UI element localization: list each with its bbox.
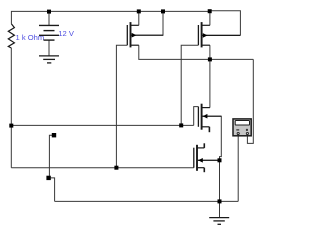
wire meter right lead xyxy=(247,59,253,143)
transistor M3 (NMOS middle-right) xyxy=(198,104,221,133)
wire M2-M3 vertical x=210 xyxy=(209,45,211,107)
M4 open drain stub xyxy=(203,143,205,148)
transistor M4 (NMOS bottom) xyxy=(194,143,220,172)
wire M2 gate vertical xyxy=(181,45,198,125)
node M1 bulk/rail xyxy=(161,9,165,13)
node M4 bulk xyxy=(218,158,222,162)
node M1 gate / bottom bus xyxy=(114,166,118,170)
wire bottom rail y=201.4 xyxy=(55,200,239,202)
wire M1 bulk to rail xyxy=(131,11,164,35)
M4 bulk arrow (points left) xyxy=(198,158,203,163)
node gate bus left xyxy=(9,124,13,128)
multimeter instrument xyxy=(233,119,251,136)
M2 bulk arrow (points right) xyxy=(203,33,208,38)
wire battery bottom lead to ground xyxy=(48,40,50,56)
wire meter left lead xyxy=(237,136,239,202)
wire M3 bulk down to ground node xyxy=(202,116,222,201)
wire connector2 to bottom rail xyxy=(51,178,55,202)
wire top rail left segment xyxy=(11,11,209,24)
wire M1 gate vertical xyxy=(116,45,127,168)
node M1 drain/rail xyxy=(137,9,141,13)
wire resistor bottom lead / left vertical xyxy=(10,48,12,168)
svg-text:12 V: 12 V xyxy=(58,29,75,38)
battery V1 plates xyxy=(39,25,59,40)
node source bus xyxy=(208,57,212,61)
wire connector1 lead xyxy=(49,135,52,176)
wire M2 bulk to rail corner xyxy=(202,34,241,36)
wire battery top lead xyxy=(48,11,50,25)
transistor M1 (PMOS top-left) xyxy=(127,22,163,47)
transistor M2 (PMOS top-right) xyxy=(198,22,240,47)
node ground / bottom rail xyxy=(218,199,222,203)
wire gate bus y=125.4 xyxy=(11,124,193,126)
wire source bus y=59.4 xyxy=(139,45,254,59)
connector square 2 xyxy=(46,176,50,180)
wire M1 drain to rail xyxy=(138,11,140,25)
wire bottom-left horizontal y=167.7 xyxy=(11,167,194,169)
connector square 1 xyxy=(52,133,56,137)
wire ground lead bottom xyxy=(219,201,221,217)
node battery/rail xyxy=(47,10,51,14)
wire M3 gate step xyxy=(194,107,199,126)
M3 bulk arrow (points left) xyxy=(203,114,208,119)
ground (battery) xyxy=(39,56,59,63)
M1 bulk arrow (points right) xyxy=(132,33,137,38)
wire M4 bulk to junction xyxy=(197,159,220,161)
node M2 drain/rail xyxy=(208,9,212,13)
node M2 gate / gate bus xyxy=(179,123,183,127)
M4 open source stub xyxy=(203,168,205,173)
M3 open source stub xyxy=(208,127,210,132)
svg-text:1 k Ohm: 1 k Ohm xyxy=(16,33,45,42)
ground (bottom right) xyxy=(209,218,229,225)
wire M2 drain to rail xyxy=(209,11,211,25)
wire top rail right segment xyxy=(210,11,241,36)
resistor R 1k xyxy=(8,24,14,48)
